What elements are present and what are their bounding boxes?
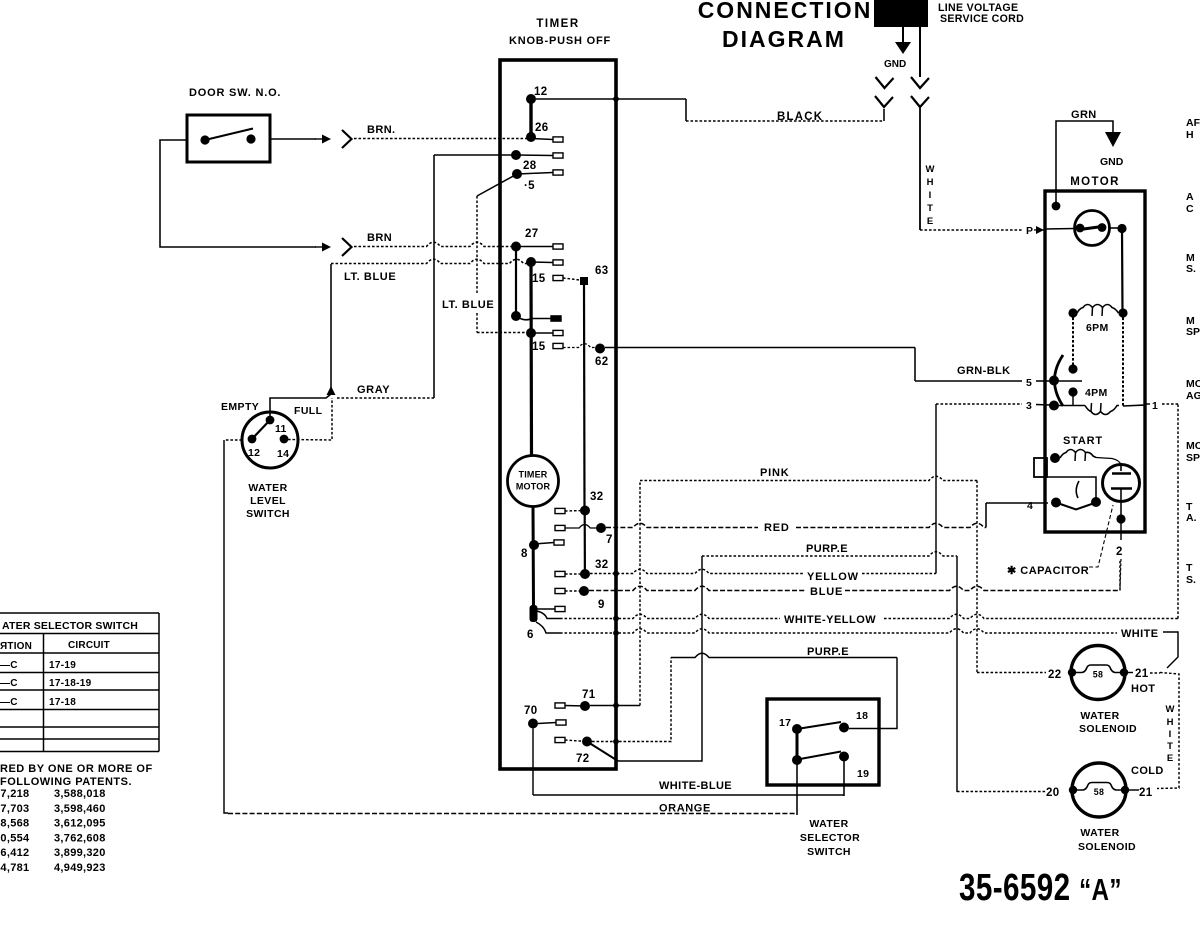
svg-text:8: 8 [521, 548, 528, 560]
wire black lower run [686, 120, 883, 122]
capacitor top plate [1112, 472, 1131, 474]
wire white to motor P [920, 229, 1022, 231]
timer contact 7 [596, 523, 606, 533]
svg-text:SELECTOR: SELECTOR [800, 832, 860, 844]
wire motor 1 lead [1146, 403, 1150, 405]
start coil left dot [1050, 453, 1060, 463]
svg-text:WATER: WATER [248, 482, 287, 494]
svg-text:TIMER: TIMER [519, 470, 548, 480]
timer contact 32 upper [580, 506, 590, 516]
svg-text:GRN: GRN [1071, 109, 1097, 121]
lt-blue-2 vertical upper [476, 196, 478, 293]
timer edge junction y99 [613, 96, 619, 102]
right edge cropped labels [1186, 117, 1200, 586]
svg-text:WATER: WATER [809, 818, 848, 830]
speed contact lower [1068, 387, 1077, 396]
coil 4pm hook b [1100, 403, 1103, 412]
svg-text:LT. BLUE: LT. BLUE [344, 271, 396, 283]
connector arrow brn1 [315, 135, 331, 144]
wire red run a [606, 523, 758, 527]
timer node 62 [595, 344, 605, 354]
wire blue run a [589, 586, 805, 590]
svg-text:BRN.: BRN. [367, 124, 396, 136]
lead 8 to stub [534, 543, 554, 545]
capacitor out dot [1116, 514, 1125, 523]
wire 21 hot lead [1128, 672, 1133, 674]
coil 6pm hook b [1101, 308, 1104, 317]
svg-text:3,762,608: 3,762,608 [54, 832, 106, 844]
capacitor bottom stem [1120, 489, 1122, 520]
wire wht-yel run b [884, 614, 1178, 618]
timer contact 70 [528, 719, 538, 729]
wire gray vertical to 28 [433, 155, 435, 398]
svg-text:17-18: 17-18 [49, 697, 76, 708]
timer contact 16 [511, 311, 521, 321]
protector lead in [1045, 228, 1075, 231]
timer contact 15m [526, 328, 536, 338]
svg-text:4PM: 4PM [1085, 387, 1108, 399]
svg-text:72: 72 [576, 753, 589, 765]
lead 15l to 62 [563, 344, 600, 348]
wire blue run b [845, 586, 1120, 590]
wire 6pm tap [1072, 313, 1074, 365]
wire 21 hot lead b [1150, 672, 1160, 674]
svg-text:35-6592 “A”: 35-6592 “A” [959, 867, 1122, 909]
svg-text:YELLOW: YELLOW [807, 571, 859, 583]
wire yellow run a [590, 569, 803, 573]
wire grn-blk step [914, 348, 916, 382]
lead 27 to stub [516, 246, 553, 248]
svg-text:20: 20 [1046, 787, 1059, 799]
wire white corner [1163, 632, 1178, 668]
svg-text:ATER SELECTOR SWITCH: ATER SELECTOR SWITCH [2, 620, 138, 632]
svg-text:HOT: HOT [1131, 683, 1155, 695]
wire white run [560, 629, 1117, 633]
svg-text:3: 3 [1026, 400, 1032, 412]
selector contact 19 [839, 752, 849, 762]
svg-text:SWITCH: SWITCH [246, 508, 290, 520]
stub blob [555, 606, 565, 611]
wire brn2 to timer 27 [354, 242, 516, 246]
lead blob stub [537, 608, 555, 610]
protector bar [1080, 227, 1102, 230]
lead 16 wiggle [516, 316, 551, 320]
svg-text:KNOB-PUSH OFF: KNOB-PUSH OFF [509, 35, 611, 47]
solenoid cold left terminal [1069, 786, 1077, 794]
svg-text:71: 71 [582, 689, 596, 701]
solenoid hot left terminal [1068, 668, 1076, 676]
coil 6pm left dot [1068, 308, 1077, 317]
selector vertical 17 [796, 729, 799, 760]
lead 70 [538, 723, 556, 724]
wire purple1 run [702, 552, 957, 556]
water selector switch table grid [0, 613, 159, 752]
svg-text:MO: MO [1186, 378, 1200, 390]
svg-text:88,568: 88,568 [0, 818, 29, 830]
svg-text:6: 6 [527, 629, 534, 641]
switch arm 72 [587, 742, 618, 762]
timer contact 26 [526, 132, 536, 142]
svg-text:GND: GND [1100, 156, 1124, 168]
svg-text:WHITE-YELLOW: WHITE-YELLOW [784, 614, 876, 626]
svg-text:ORANGE: ORANGE [659, 803, 711, 815]
motor protector circle [1075, 211, 1110, 246]
svg-text:PINK: PINK [760, 467, 789, 479]
svg-text:21: 21 [1139, 787, 1153, 799]
capacitor callout leader [1089, 505, 1113, 567]
svg-text:32: 32 [595, 559, 608, 571]
start coil to cap [1096, 458, 1121, 465]
svg-text:SWITCH: SWITCH [807, 846, 851, 858]
svg-text:1: 1 [1152, 400, 1158, 412]
svg-text:21: 21 [1135, 668, 1149, 680]
water level blade [252, 420, 270, 439]
wire pink vertical [639, 481, 641, 706]
svg-text:70: 70 [524, 705, 537, 717]
wire blue cap vertical [1119, 560, 1121, 591]
door sw right lead [270, 138, 316, 140]
wire 12 lead [224, 439, 242, 441]
timer contact 12 [526, 94, 536, 104]
svg-text:11: 11 [275, 423, 287, 435]
lead 15u to 63 [563, 278, 584, 281]
timer contact 72 [582, 737, 592, 747]
timer vertical 32-32 [584, 515, 586, 574]
speed selector arc [1055, 355, 1064, 406]
svg-text:PURP.E: PURP.E [807, 646, 849, 658]
lead 72 [565, 740, 587, 742]
svg-text:4,949,923: 4,949,923 [54, 862, 106, 874]
protector right contact [1098, 223, 1107, 232]
stub 15m [553, 330, 563, 335]
wire gray [337, 397, 434, 399]
timer edge junction y573.5 [613, 571, 619, 577]
svg-text:SP: SP [1186, 452, 1200, 464]
selector 17 down to orange [796, 764, 798, 815]
svg-text:9: 9 [598, 599, 605, 611]
svg-text:5: 5 [1026, 377, 1032, 389]
protector out dot [1117, 224, 1126, 233]
svg-text:ЯTION: ЯTION [0, 641, 32, 652]
protector left contact [1076, 224, 1085, 233]
svg-text:BLACK: BLACK [777, 111, 823, 123]
stub 15 lower [553, 343, 563, 348]
svg-text:14: 14 [277, 448, 289, 460]
svg-text:RED BY ONE OR MORE OF: RED BY ONE OR MORE OF [0, 763, 153, 775]
door sw left lead [160, 140, 316, 247]
svg-text:FOLLOWING PATENTS.: FOLLOWING PATENTS. [0, 776, 132, 788]
start switch flag [1076, 481, 1079, 498]
motor 1 inner lead [1123, 405, 1145, 406]
wire lt-blue-1 run [331, 259, 528, 263]
grn ground arrow [1105, 132, 1121, 147]
wire purple1 down [956, 556, 958, 792]
wire pink down [976, 481, 978, 674]
timer contact 27 [511, 242, 521, 252]
start coil [1060, 450, 1096, 459]
water solenoid hot circle [1071, 646, 1125, 700]
svg-text:12: 12 [248, 447, 260, 459]
svg-text:EMPTY: EMPTY [221, 401, 259, 413]
svg-text:AG: AG [1186, 390, 1200, 402]
wire pink to solenoid 22 [977, 672, 1046, 674]
stub 27 [553, 244, 563, 249]
wire white-blue run [533, 794, 844, 796]
svg-text:✱ CAPACITOR: ✱ CAPACITOR [1007, 565, 1089, 577]
start relay rect [1034, 458, 1047, 477]
timer box [500, 60, 616, 769]
arrow into motor P [1036, 226, 1044, 234]
motor bus right mid [1122, 313, 1124, 406]
svg-text:—C: —C [0, 697, 18, 708]
svg-text:A.: A. [1186, 512, 1197, 524]
solenoid cold right terminal [1121, 786, 1129, 794]
svg-text:PURP.E: PURP.E [806, 543, 848, 555]
wire red step up [985, 503, 987, 528]
motor bus right upper [1121, 229, 1124, 314]
lead 7 [565, 525, 601, 529]
svg-text:17-18-19: 17-18-19 [49, 678, 92, 689]
svg-text:17: 17 [779, 717, 791, 729]
selector blade upper [800, 722, 841, 729]
svg-text:SP: SP [1186, 326, 1200, 338]
timer node 63 square [580, 277, 588, 285]
start switch blade [1056, 503, 1096, 510]
svg-text:BRN: BRN [367, 232, 392, 244]
speed lower tap [1072, 392, 1074, 405]
svg-text:18: 18 [856, 710, 868, 722]
svg-text:CONNECTION: CONNECTION [698, 0, 873, 23]
wire 71 out [590, 705, 640, 707]
svg-text:WATER: WATER [1080, 710, 1119, 722]
timer contact 25 [512, 169, 522, 179]
coil 6pm hook a [1091, 308, 1094, 317]
ground prong wire [902, 27, 904, 42]
svg-text:GND: GND [884, 59, 906, 70]
solenoid hot coil [1072, 665, 1124, 673]
svg-text:RED: RED [764, 522, 790, 534]
svg-text:62: 62 [595, 356, 608, 368]
wire 11 up [270, 394, 331, 420]
svg-text:WATER: WATER [1080, 827, 1119, 839]
lead 5 into motor [1036, 380, 1050, 382]
svg-text:12: 12 [534, 86, 547, 98]
svg-text:WHITE: WHITE [1121, 628, 1158, 640]
ground arrow [895, 42, 911, 54]
timer contact 9 [579, 586, 589, 596]
wire pink run [640, 476, 977, 480]
lead 26b to stub [531, 261, 553, 264]
lead 9 [565, 590, 584, 592]
timer motor circle [508, 456, 559, 507]
lead 71 [565, 705, 585, 708]
coil 4pm hook a [1090, 403, 1093, 412]
timer contact 8 [529, 540, 539, 550]
water level contact 14 [280, 435, 289, 444]
svg-text:58: 58 [1094, 787, 1104, 797]
svg-text:MOTOR: MOTOR [516, 482, 551, 492]
svg-text:2: 2 [1116, 546, 1123, 558]
stub 9 [555, 588, 565, 593]
svg-text:S.: S. [1186, 263, 1196, 275]
svg-text:BLUE: BLUE [810, 586, 843, 598]
svg-text:14,781: 14,781 [0, 862, 29, 874]
lt-blue-2 diagonal [477, 174, 517, 196]
svg-text:17-19: 17-19 [49, 660, 76, 671]
water level contact 12 [248, 435, 257, 444]
wire 28 into timer [434, 154, 516, 156]
wire red run b [796, 523, 986, 527]
lead 26 to stub [531, 139, 553, 140]
svg-text:28: 28 [523, 160, 537, 172]
svg-text:19: 19 [857, 768, 869, 780]
lead 28 to stub [516, 154, 553, 157]
coil 4pm [1085, 406, 1119, 415]
wire white cord vertical [919, 107, 921, 230]
speed common lead [1054, 380, 1082, 382]
stub 7 [555, 525, 565, 530]
svg-text:C: C [1186, 203, 1194, 215]
svg-text:H: H [1186, 129, 1194, 141]
plug chevron right lower [911, 96, 929, 107]
timer contact 32 lower [580, 569, 590, 579]
connector arrow brn2 [315, 243, 331, 252]
svg-text:58: 58 [1093, 670, 1103, 680]
timer motor lead down [532, 507, 536, 608]
timer wiper blob [530, 605, 538, 622]
motor case ground dot [1052, 202, 1061, 211]
timer bus 26b-15 [529, 262, 533, 456]
svg-text:90,554: 90,554 [0, 832, 30, 844]
water level switch circle [242, 412, 298, 468]
svg-text:FULL: FULL [294, 405, 323, 417]
plug chevron right upper [911, 77, 929, 88]
timer vertical 63 [583, 285, 586, 510]
capacitor dashed lead [1120, 559, 1121, 588]
svg-text:26: 26 [535, 122, 548, 134]
wire 21 bus [1157, 673, 1179, 789]
coil 6pm [1077, 305, 1119, 314]
svg-text:DOOR SW. N.O.: DOOR SW. N.O. [189, 87, 281, 99]
stub 25 [553, 170, 563, 175]
stub 26b [553, 260, 563, 265]
lead 3 into motor [1036, 404, 1050, 407]
wire yellow to motor 3 [936, 403, 1022, 405]
wire red to motor 4 [986, 502, 1048, 504]
svg-text:SOLENOID: SOLENOID [1079, 723, 1137, 735]
plug chevron left lower [875, 96, 893, 107]
wire grn-blk upper [605, 347, 915, 349]
wire purple1 to solenoid 20 [957, 791, 1046, 793]
stub 8 [554, 540, 564, 545]
svg-text:6PM: 6PM [1086, 322, 1109, 334]
wire grn-blk lower [915, 380, 1022, 382]
timer edge junction y741.5 [613, 739, 619, 745]
svg-text:3,612,095: 3,612,095 [54, 818, 106, 830]
wire wht-yel exit [537, 611, 560, 619]
wire motor 1 lead b [1162, 403, 1178, 405]
motor 3 dot [1049, 401, 1059, 411]
svg-text:MO: MO [1186, 440, 1200, 452]
motor 4 dot [1051, 498, 1061, 508]
coil 4pm lead [1054, 405, 1085, 407]
timer contact 28 [511, 150, 521, 160]
svg-text:DIAGRAM: DIAGRAM [722, 26, 846, 52]
svg-text:TIMER: TIMER [536, 18, 579, 30]
svg-text:22: 22 [1048, 669, 1061, 681]
svg-text:4: 4 [1027, 500, 1033, 512]
timer edge junction y633 [613, 630, 619, 636]
svg-text:WHITE-BLUE: WHITE-BLUE [659, 780, 732, 792]
wire orange run [228, 813, 797, 815]
solenoid cold coil [1073, 783, 1125, 791]
black wire end tick [883, 109, 885, 121]
svg-text:SOLENOID: SOLENOID [1078, 841, 1136, 853]
lead 32l [565, 573, 585, 575]
speed contact upper [1068, 364, 1077, 373]
wire motor1 vertical [1177, 404, 1179, 619]
svg-text:3,588,018: 3,588,018 [54, 788, 106, 800]
svg-text:AF: AF [1186, 117, 1200, 129]
capacitor lead through edge [1120, 519, 1122, 540]
lt-blue-2 vertical lower [476, 313, 478, 333]
timer bus 12-26 [529, 99, 532, 137]
selector 19 down [843, 757, 845, 797]
capacitor bottom plate [1111, 487, 1132, 489]
timer edge junction y705.5 [613, 703, 619, 709]
solenoid hot right terminal [1120, 668, 1128, 676]
capacitor circle [1103, 465, 1140, 502]
wire black upper run [536, 98, 686, 100]
svg-text:START: START [1063, 435, 1103, 447]
svg-text:7: 7 [606, 534, 613, 546]
stub 70 [556, 720, 566, 725]
svg-text:MOTOR: MOTOR [1070, 176, 1120, 188]
door switch blade [205, 129, 253, 141]
wire black step [685, 99, 687, 121]
svg-text:S.: S. [1186, 574, 1196, 586]
motor box [1045, 191, 1145, 532]
svg-text:LT. BLUE: LT. BLUE [442, 299, 494, 311]
wire 21 cold lead [1129, 789, 1139, 791]
start switch right dot [1091, 497, 1101, 507]
stub 72 [555, 737, 565, 742]
coil 6pm right dot [1118, 308, 1127, 317]
svg-text:SERVICE CORD: SERVICE CORD [940, 13, 1024, 25]
timer vertical 27-down [515, 247, 517, 317]
wire yellow run b [862, 573, 936, 575]
connector chevron brn1 [342, 130, 352, 148]
svg-text:67,703: 67,703 [0, 803, 29, 815]
stub 28 [553, 153, 563, 158]
selector contact 17 [792, 724, 802, 734]
svg-text:T: T [1186, 562, 1193, 574]
stub 32 upper [555, 508, 565, 513]
water solenoid cold circle [1072, 763, 1126, 817]
plug chevron left upper [876, 77, 894, 88]
svg-text:A: A [1186, 191, 1194, 203]
svg-text:GRN-BLK: GRN-BLK [957, 365, 1011, 377]
wire white-blue vertical [532, 729, 534, 796]
wire purple2 down to 18 [849, 658, 897, 729]
start switch upper path [1047, 477, 1096, 498]
svg-text:15: 15 [532, 341, 546, 353]
lead 25 to stub [517, 173, 553, 175]
selector contact 17b [792, 755, 802, 765]
svg-text:32: 32 [590, 491, 603, 503]
stub 71 [555, 703, 565, 708]
capacitor top stem [1120, 465, 1122, 471]
